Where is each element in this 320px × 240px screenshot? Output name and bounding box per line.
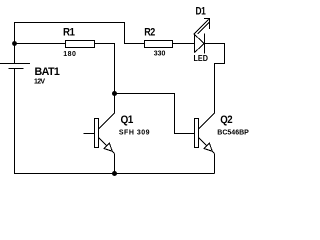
svg-text:BAT1: BAT1 <box>35 66 60 78</box>
svg-text:R1: R1 <box>63 27 75 39</box>
svg-text:D1: D1 <box>196 6 206 18</box>
svg-text:180: 180 <box>63 51 76 58</box>
svg-text:LED: LED <box>194 54 209 63</box>
svg-text:BC546BP: BC546BP <box>217 130 249 137</box>
svg-text:Q1: Q1 <box>121 114 134 126</box>
svg-text:SFH 309: SFH 309 <box>119 130 150 137</box>
svg-text:330: 330 <box>154 51 166 58</box>
svg-text:12V: 12V <box>34 79 45 86</box>
svg-text:Q2: Q2 <box>220 114 232 126</box>
svg-text:R2: R2 <box>144 27 155 39</box>
